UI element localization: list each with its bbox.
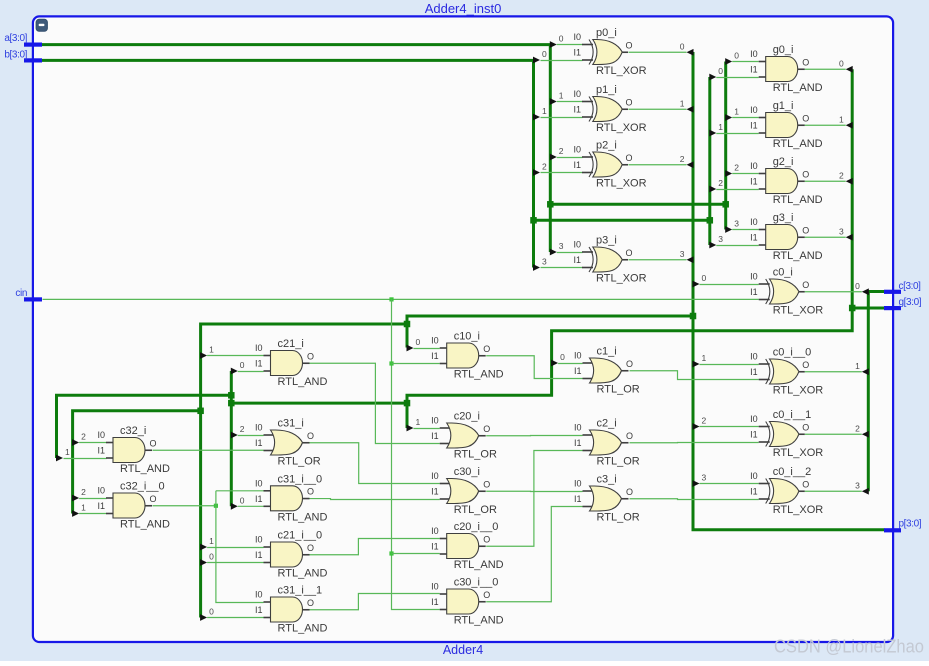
svg-text:I0: I0	[574, 423, 582, 433]
svg-text:1: 1	[839, 114, 844, 124]
svg-text:2: 2	[542, 162, 547, 172]
svg-text:2: 2	[81, 487, 86, 497]
svg-text:I1: I1	[750, 487, 758, 497]
svg-text:O: O	[626, 248, 633, 258]
svg-text:2: 2	[702, 416, 707, 426]
svg-text:O: O	[802, 169, 809, 179]
svg-text:c32_i__0: c32_i__0	[120, 481, 165, 493]
svg-text:0: 0	[559, 34, 564, 44]
svg-text:I0: I0	[431, 416, 439, 426]
svg-text:g2_i: g2_i	[773, 156, 794, 168]
svg-text:O: O	[802, 360, 809, 370]
svg-text:I0: I0	[255, 535, 263, 545]
svg-text:I0: I0	[431, 471, 439, 481]
svg-text:c0_i__2: c0_i__2	[773, 466, 812, 478]
svg-text:RTL_XOR: RTL_XOR	[773, 305, 824, 317]
svg-text:0: 0	[718, 66, 723, 76]
svg-text:I1: I1	[574, 494, 582, 504]
svg-text:RTL_OR: RTL_OR	[597, 456, 640, 468]
svg-text:0: 0	[560, 352, 565, 362]
svg-text:1: 1	[209, 536, 214, 546]
svg-text:b[3:0]: b[3:0]	[4, 50, 27, 61]
svg-text:I0: I0	[750, 217, 758, 227]
svg-text:2: 2	[680, 154, 685, 164]
svg-text:c30_i: c30_i	[454, 466, 480, 478]
svg-text:RTL_AND: RTL_AND	[278, 512, 328, 524]
svg-text:O: O	[150, 438, 157, 448]
svg-text:g3_i: g3_i	[773, 212, 794, 224]
svg-text:a[3:0]: a[3:0]	[4, 33, 27, 44]
svg-text:O: O	[483, 590, 490, 600]
svg-text:I1: I1	[574, 366, 582, 376]
svg-text:1: 1	[81, 503, 86, 513]
svg-text:c32_i: c32_i	[120, 425, 146, 437]
svg-text:O: O	[307, 351, 314, 361]
svg-text:O: O	[483, 479, 490, 489]
svg-text:0: 0	[209, 607, 214, 617]
svg-text:RTL_XOR: RTL_XOR	[596, 273, 647, 285]
svg-text:c20_i__0: c20_i__0	[454, 521, 499, 533]
svg-text:2: 2	[240, 424, 245, 434]
svg-text:p[3:0]: p[3:0]	[899, 519, 922, 530]
svg-text:I1: I1	[573, 105, 581, 115]
svg-text:0: 0	[839, 58, 844, 68]
svg-text:RTL_AND: RTL_AND	[773, 82, 823, 94]
svg-text:I1: I1	[255, 494, 263, 504]
svg-text:I0: I0	[255, 343, 263, 353]
svg-text:I0: I0	[255, 590, 263, 600]
svg-text:Adder4: Adder4	[443, 643, 483, 657]
svg-text:I1: I1	[750, 430, 758, 440]
svg-text:1: 1	[559, 91, 564, 101]
svg-text:1: 1	[718, 122, 723, 132]
svg-text:I1: I1	[573, 255, 581, 265]
svg-text:c31_i: c31_i	[278, 418, 304, 430]
svg-text:2: 2	[839, 170, 844, 180]
svg-text:RTL_XOR: RTL_XOR	[596, 65, 647, 77]
svg-text:2: 2	[718, 178, 723, 188]
svg-text:0: 0	[542, 49, 547, 59]
svg-text:I0: I0	[573, 89, 581, 99]
svg-text:3: 3	[718, 234, 723, 244]
svg-text:3: 3	[680, 249, 685, 259]
svg-text:c0_i: c0_i	[773, 267, 793, 279]
svg-text:RTL_AND: RTL_AND	[773, 250, 823, 262]
svg-text:I1: I1	[431, 487, 439, 497]
svg-text:3: 3	[542, 257, 547, 267]
svg-text:I1: I1	[431, 431, 439, 441]
svg-text:O: O	[307, 487, 314, 497]
svg-text:I1: I1	[750, 367, 758, 377]
svg-text:I0: I0	[431, 582, 439, 592]
svg-text:O: O	[802, 280, 809, 290]
svg-text:c20_i: c20_i	[454, 411, 480, 423]
svg-text:I0: I0	[97, 430, 105, 440]
svg-text:O: O	[802, 479, 809, 489]
svg-text:I0: I0	[750, 105, 758, 115]
svg-text:2: 2	[734, 163, 739, 173]
svg-text:O: O	[483, 424, 490, 434]
svg-text:I1: I1	[750, 65, 758, 75]
svg-text:c21_i: c21_i	[278, 338, 304, 350]
svg-text:RTL_OR: RTL_OR	[454, 449, 497, 461]
svg-text:2: 2	[559, 146, 564, 156]
svg-text:I0: I0	[750, 352, 758, 362]
svg-text:RTL_XOR: RTL_XOR	[773, 447, 824, 459]
svg-text:O: O	[626, 97, 633, 107]
svg-text:c21_i__0: c21_i__0	[278, 530, 323, 542]
svg-text:0: 0	[416, 337, 421, 347]
svg-text:RTL_AND: RTL_AND	[120, 463, 170, 475]
svg-text:g[3:0]: g[3:0]	[899, 297, 922, 308]
svg-text:I0: I0	[750, 49, 758, 59]
svg-text:I0: I0	[255, 423, 263, 433]
svg-text:c3_i: c3_i	[597, 474, 617, 486]
svg-text:1: 1	[702, 353, 707, 363]
svg-text:O: O	[802, 113, 809, 123]
svg-text:1: 1	[734, 107, 739, 117]
svg-text:RTL_AND: RTL_AND	[773, 138, 823, 150]
svg-text:0: 0	[680, 41, 685, 51]
svg-text:RTL_OR: RTL_OR	[454, 504, 497, 516]
svg-text:1: 1	[65, 447, 70, 457]
svg-text:I0: I0	[750, 272, 758, 282]
svg-text:I0: I0	[750, 471, 758, 481]
svg-text:O: O	[483, 534, 490, 544]
svg-text:I1: I1	[431, 597, 439, 607]
svg-text:I0: I0	[255, 478, 263, 488]
svg-text:I1: I1	[573, 48, 581, 58]
svg-text:RTL_XOR: RTL_XOR	[596, 122, 647, 134]
svg-text:RTL_AND: RTL_AND	[120, 519, 170, 531]
svg-text:0: 0	[240, 360, 245, 370]
svg-text:0: 0	[734, 51, 739, 61]
svg-text:I1: I1	[750, 287, 758, 297]
svg-text:I1: I1	[750, 177, 758, 187]
svg-text:I1: I1	[573, 160, 581, 170]
svg-text:CSDN @LionelZhao: CSDN @LionelZhao	[774, 636, 924, 657]
svg-text:p3_i: p3_i	[596, 235, 617, 247]
svg-text:O: O	[626, 487, 633, 497]
svg-text:O: O	[802, 422, 809, 432]
svg-text:I0: I0	[573, 145, 581, 155]
svg-text:O: O	[307, 431, 314, 441]
svg-text:I0: I0	[97, 486, 105, 496]
svg-text:c31_i__0: c31_i__0	[278, 473, 323, 485]
svg-text:c0_i__1: c0_i__1	[773, 409, 812, 421]
svg-text:O: O	[307, 543, 314, 553]
svg-text:I1: I1	[97, 501, 105, 511]
svg-text:RTL_OR: RTL_OR	[597, 384, 640, 396]
svg-text:3: 3	[734, 219, 739, 229]
svg-text:1: 1	[542, 106, 547, 116]
svg-text:c0_i__0: c0_i__0	[773, 347, 812, 359]
svg-text:0: 0	[702, 273, 707, 283]
svg-text:Adder4_inst0: Adder4_inst0	[425, 1, 502, 16]
svg-text:I1: I1	[750, 121, 758, 131]
svg-text:RTL_OR: RTL_OR	[278, 456, 321, 468]
svg-text:I1: I1	[255, 605, 263, 615]
svg-text:0: 0	[240, 495, 245, 505]
svg-text:g1_i: g1_i	[773, 100, 794, 112]
svg-text:c30_i__0: c30_i__0	[454, 577, 499, 589]
svg-text:I1: I1	[97, 446, 105, 456]
svg-text:I0: I0	[750, 161, 758, 171]
svg-text:RTL_OR: RTL_OR	[597, 512, 640, 524]
svg-text:I0: I0	[574, 351, 582, 361]
svg-text:I0: I0	[573, 32, 581, 42]
svg-text:O: O	[626, 40, 633, 50]
svg-text:3: 3	[855, 480, 860, 490]
svg-text:I1: I1	[255, 550, 263, 560]
svg-text:1: 1	[209, 345, 214, 355]
svg-text:p2_i: p2_i	[596, 140, 617, 152]
svg-text:RTL_AND: RTL_AND	[454, 615, 504, 627]
svg-text:I1: I1	[431, 542, 439, 552]
svg-text:c31_i__1: c31_i__1	[278, 585, 323, 597]
svg-text:I0: I0	[750, 414, 758, 424]
svg-text:RTL_XOR: RTL_XOR	[773, 504, 824, 516]
svg-text:O: O	[150, 494, 157, 504]
svg-text:I1: I1	[431, 351, 439, 361]
svg-text:g0_i: g0_i	[773, 44, 794, 56]
svg-text:cin: cin	[15, 288, 27, 299]
svg-text:RTL_XOR: RTL_XOR	[773, 385, 824, 397]
svg-text:I0: I0	[431, 336, 439, 346]
svg-text:3: 3	[559, 241, 564, 251]
svg-text:I0: I0	[573, 240, 581, 250]
svg-text:c2_i: c2_i	[597, 418, 617, 430]
svg-text:RTL_AND: RTL_AND	[454, 369, 504, 381]
svg-text:0: 0	[855, 281, 860, 291]
svg-text:I0: I0	[574, 479, 582, 489]
svg-text:I1: I1	[255, 359, 263, 369]
svg-text:I1: I1	[255, 438, 263, 448]
svg-text:RTL_AND: RTL_AND	[278, 568, 328, 580]
svg-text:I1: I1	[750, 233, 758, 243]
svg-text:1: 1	[855, 361, 860, 371]
svg-text:c[3:0]: c[3:0]	[899, 281, 922, 292]
svg-text:O: O	[626, 359, 633, 369]
svg-text:I1: I1	[574, 438, 582, 448]
svg-text:1: 1	[416, 417, 421, 427]
svg-text:RTL_AND: RTL_AND	[278, 623, 328, 635]
svg-text:RTL_AND: RTL_AND	[773, 194, 823, 206]
svg-text:O: O	[626, 153, 633, 163]
svg-text:c1_i: c1_i	[597, 346, 617, 358]
svg-text:3: 3	[702, 473, 707, 483]
svg-text:O: O	[483, 344, 490, 354]
svg-text:p0_i: p0_i	[596, 27, 617, 39]
svg-text:O: O	[626, 431, 633, 441]
svg-text:c10_i: c10_i	[454, 331, 480, 343]
svg-text:2: 2	[855, 423, 860, 433]
svg-text:3: 3	[839, 226, 844, 236]
svg-text:0: 0	[209, 552, 214, 562]
svg-text:O: O	[802, 57, 809, 67]
svg-text:p1_i: p1_i	[596, 84, 617, 96]
svg-text:RTL_AND: RTL_AND	[454, 559, 504, 571]
svg-text:1: 1	[680, 98, 685, 108]
svg-text:RTL_AND: RTL_AND	[278, 376, 328, 388]
svg-text:2: 2	[81, 432, 86, 442]
svg-text:RTL_XOR: RTL_XOR	[596, 178, 647, 190]
svg-text:O: O	[307, 598, 314, 608]
svg-text:I0: I0	[431, 526, 439, 536]
svg-text:O: O	[802, 225, 809, 235]
